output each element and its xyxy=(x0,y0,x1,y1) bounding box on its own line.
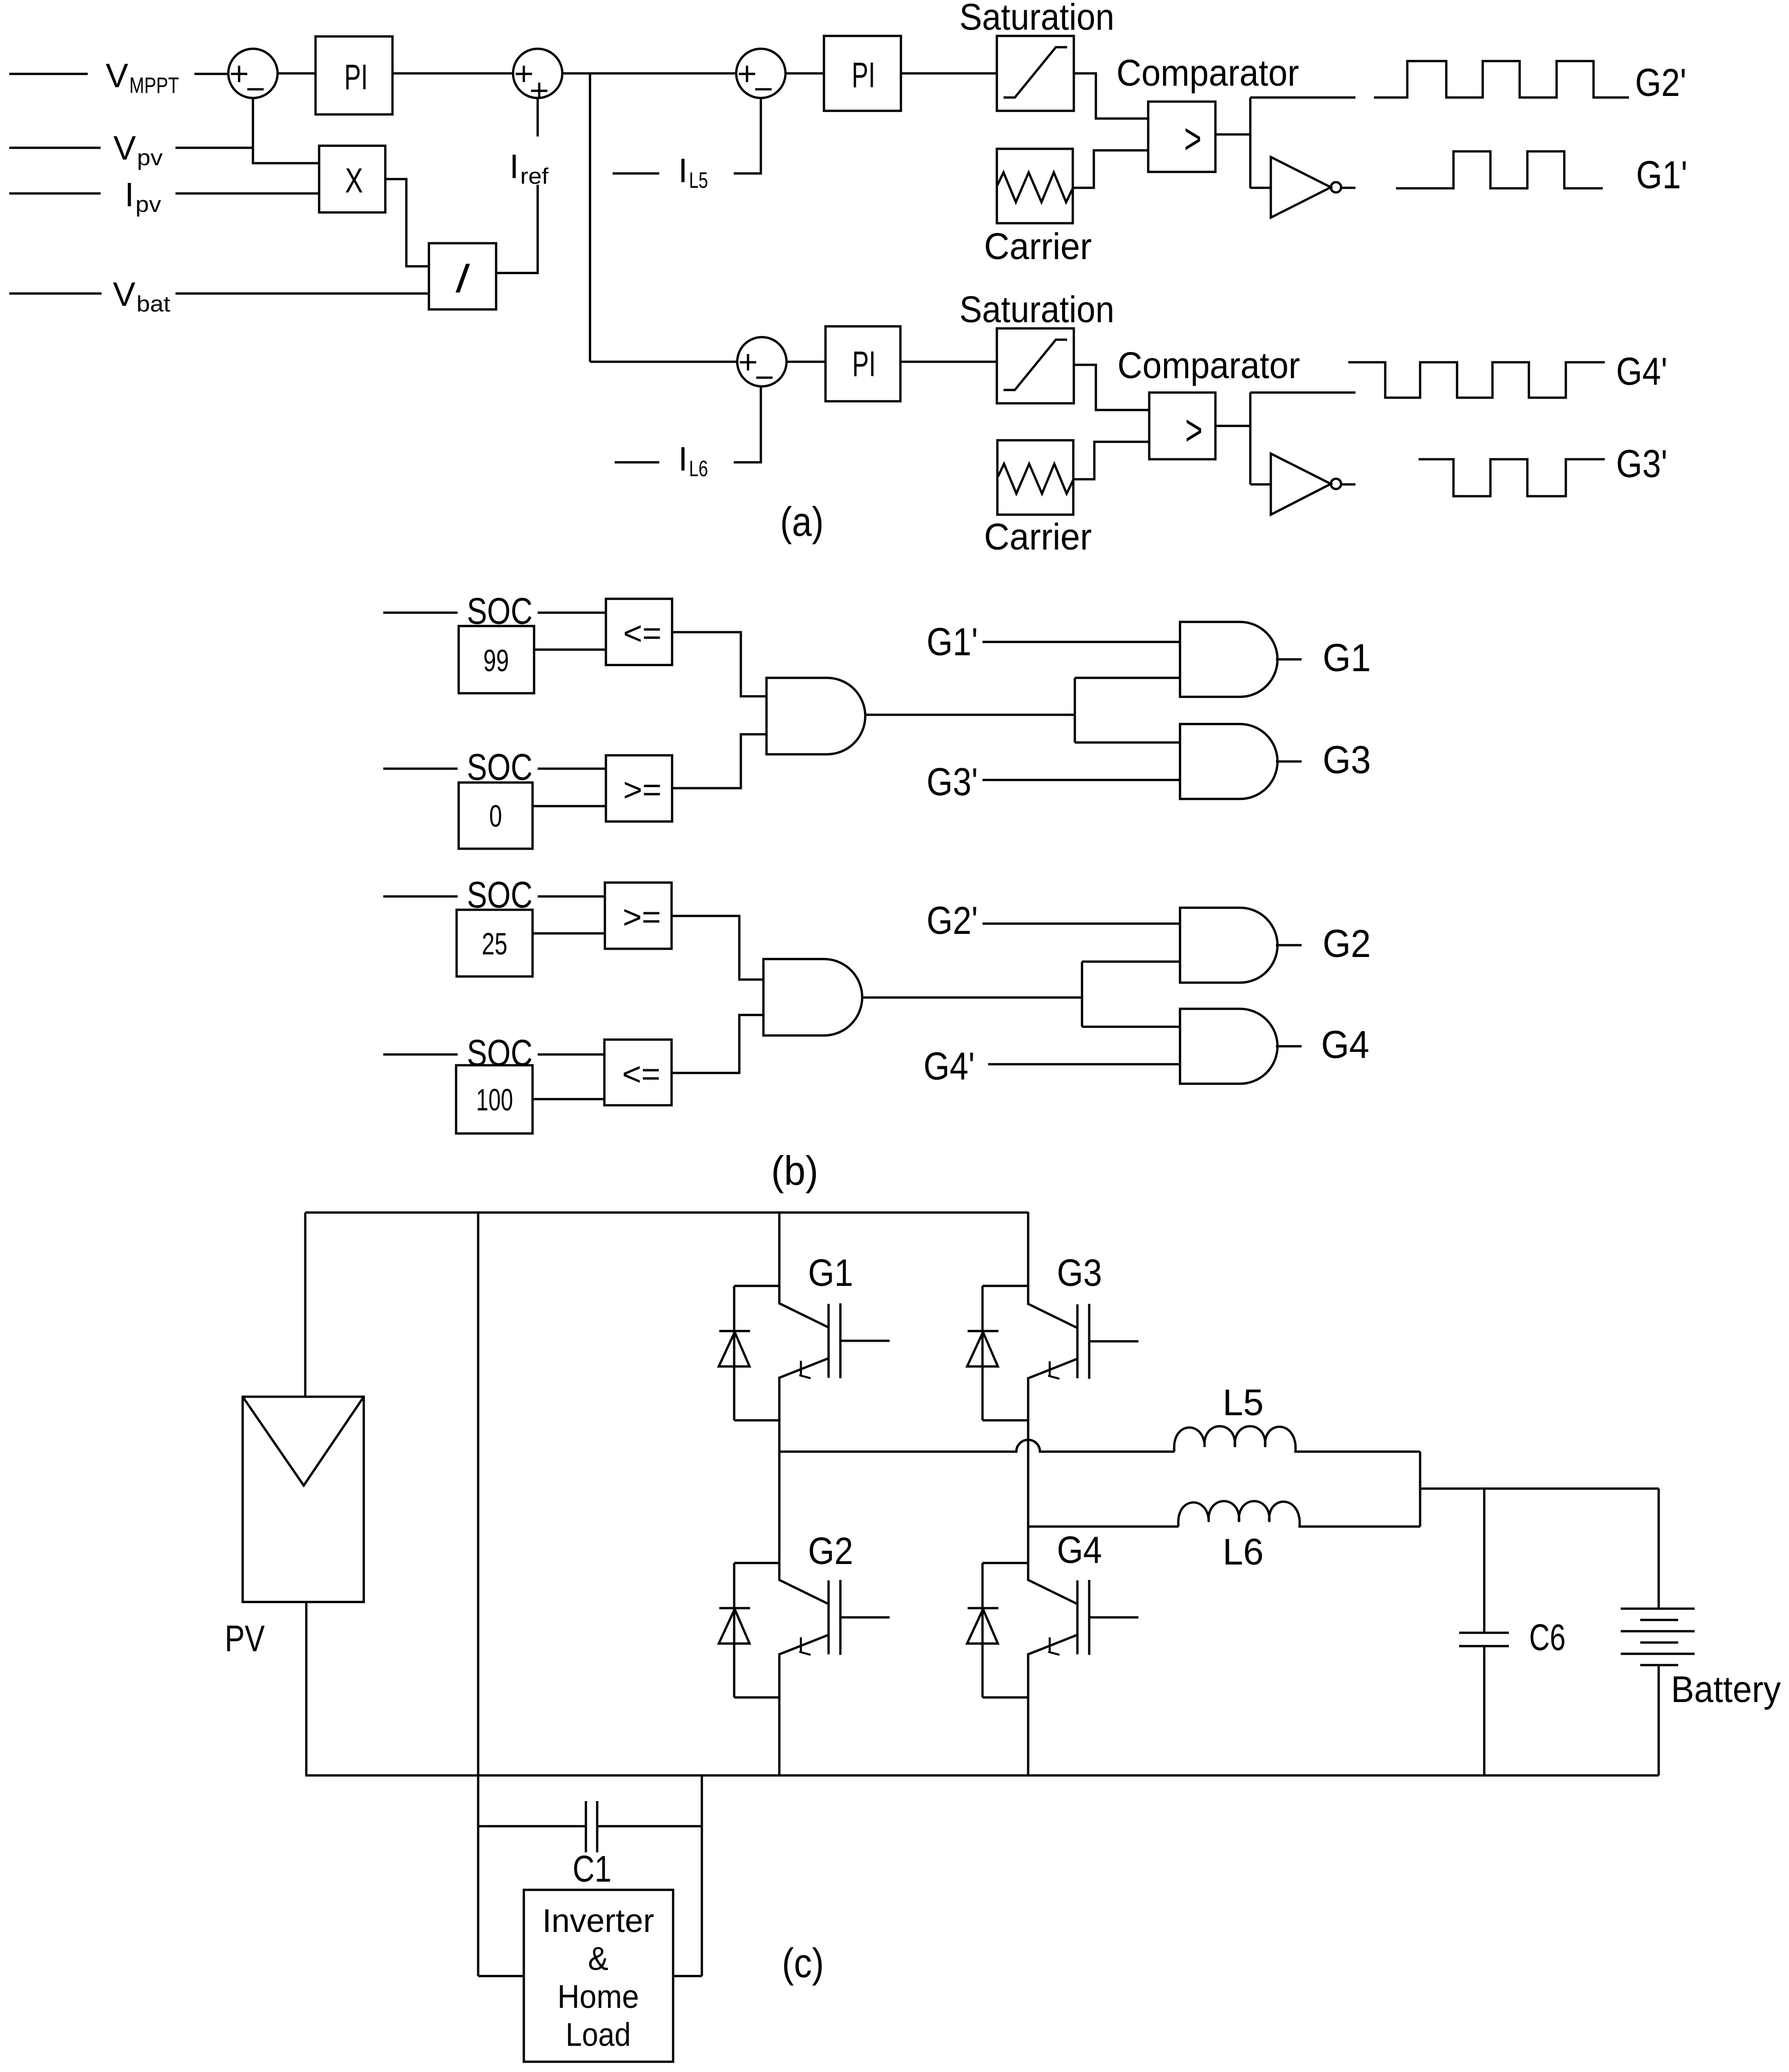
wire I_ref riser to S2 xyxy=(537,99,539,136)
svg-text:G2: G2 xyxy=(1323,922,1371,966)
summing junction S3 xyxy=(736,49,785,98)
wire S1 to PI block xyxy=(278,72,316,75)
wire SOC 1 to LE block xyxy=(538,612,606,614)
transistor Q1 (G1) collector wire xyxy=(778,1212,781,1304)
svg-text:SOC: SOC xyxy=(467,1033,533,1074)
svg-text:Load: Load xyxy=(566,2016,631,2053)
wire phase A to L5 with hop over G3 leg xyxy=(779,1440,1174,1452)
transistor Q3 (G3) gate lead xyxy=(1089,1340,1138,1343)
block Carrier row1 xyxy=(997,149,1073,223)
svg-text:G2': G2' xyxy=(1635,61,1686,105)
wire PV negative vertical xyxy=(305,1602,308,1775)
waveform G3prime xyxy=(1419,459,1605,496)
wire Carrier to Comparator row2 xyxy=(1073,442,1149,479)
wire inductor outputs junction vertical xyxy=(1419,1452,1422,1527)
waveform G4prime xyxy=(1348,362,1605,398)
wire AND G1 output xyxy=(1276,658,1302,661)
comparison block GE 1 xyxy=(606,755,672,822)
AND gate for G3 xyxy=(1180,724,1277,799)
waveform G1prime xyxy=(1396,151,1603,188)
svg-text:/: / xyxy=(456,257,470,301)
svg-text:G2: G2 xyxy=(808,1530,853,1572)
wire C6 branch vertical xyxy=(1483,1489,1486,1634)
wire inverter to G1prime waveform xyxy=(1341,187,1355,189)
wire AND G2 output xyxy=(1276,944,1302,947)
block PI (current loop IL6) xyxy=(825,326,900,401)
svg-text:PI: PI xyxy=(344,57,368,97)
wire PI to Saturation row1 xyxy=(901,72,997,75)
wire C1 right vertical to bottom bus xyxy=(701,1775,703,1976)
wire SOC input 4 stub xyxy=(383,1053,458,1056)
svg-text:C6: C6 xyxy=(1529,1617,1566,1658)
wire V_pv to node under S1 xyxy=(175,147,253,149)
wire I_pv to X block xyxy=(175,192,319,195)
transistor Q2 (G2) collector wire xyxy=(778,1452,781,1581)
wire I_L5 to S3 xyxy=(734,98,761,173)
svg-text:pv: pv xyxy=(135,192,161,217)
wire battery negative lead xyxy=(1658,1665,1660,1775)
summing junction S4 xyxy=(737,337,787,386)
AND gate for G2 xyxy=(1180,908,1277,983)
waveform G2prime xyxy=(1374,61,1629,97)
block Comparator row2 xyxy=(1149,393,1215,459)
svg-text:(a): (a) xyxy=(780,499,824,544)
AND gate A xyxy=(766,678,866,754)
wire DC top bus xyxy=(305,1211,1028,1214)
wire I_pv input stub xyxy=(9,192,101,195)
constant block 100 xyxy=(456,1065,533,1133)
svg-text:<=: <= xyxy=(622,1055,661,1092)
wire G3prime to AND gate G3 xyxy=(982,779,1180,781)
svg-text:Inverter: Inverter xyxy=(542,1902,654,1939)
svg-text:(b): (b) xyxy=(771,1148,818,1194)
wire SOC 2 to GE block xyxy=(538,768,606,770)
svg-text:I: I xyxy=(678,151,687,189)
wire G2prime to AND gate G2 xyxy=(982,923,1180,925)
transistor Q3 (G3) emitter wire xyxy=(1027,1377,1030,1528)
transistor Q4 (G4) gate lead xyxy=(1089,1616,1138,1619)
wire G4prime to AND gate G4 xyxy=(988,1063,1180,1066)
wire DC bottom bus xyxy=(305,1774,1659,1777)
wire I_L6 stub xyxy=(615,461,659,464)
capacitor C1 xyxy=(585,1801,587,1852)
block Saturation row1 xyxy=(997,36,1074,111)
wire V_pv input stub xyxy=(9,147,101,149)
wire S3 to PI row1 xyxy=(785,72,824,75)
block X multiplier xyxy=(319,146,385,212)
wire AND G4 output xyxy=(1276,1045,1302,1048)
svg-text:G1': G1' xyxy=(1636,153,1687,197)
svg-text:L5: L5 xyxy=(1223,1382,1264,1423)
wire V_pv routed to X block xyxy=(253,148,319,163)
svg-text:Home: Home xyxy=(558,1978,639,2015)
transistor Q2 (G2) gate lead xyxy=(840,1616,890,1619)
svg-text:Battery: Battery xyxy=(1671,1669,1781,1710)
svg-text:<=: <= xyxy=(623,615,662,652)
wire branch to S4 xyxy=(590,361,737,363)
AND gate for G4 xyxy=(1180,1009,1277,1084)
wire S4 to PI row2 xyxy=(787,361,825,363)
wire divider output to I_ref riser xyxy=(496,185,538,273)
wire inverter to G3prime waveform xyxy=(1341,483,1355,486)
svg-text:I: I xyxy=(678,440,687,478)
wire SOC 3 to GE block 2 xyxy=(538,895,605,898)
wire V_bat to divider xyxy=(175,292,429,295)
summing junction S1 xyxy=(228,49,278,98)
wire S1 feedback vertical (Vpv to minus input) xyxy=(252,98,254,148)
wire to G2prime waveform xyxy=(1250,96,1355,99)
comparison block LE 2 xyxy=(604,1040,672,1105)
transistor Q4 (G4) emitter wire xyxy=(1027,1653,1030,1775)
battery symbol xyxy=(1621,1609,1695,1665)
svg-text:Carrier: Carrier xyxy=(984,226,1092,267)
block divider / xyxy=(429,243,496,309)
wire to battery positive xyxy=(1420,1488,1659,1490)
block Saturation row2 xyxy=(997,328,1074,403)
wire I_L5 stub xyxy=(613,172,659,175)
svg-text:G3: G3 xyxy=(1323,738,1371,782)
transistor Q3 (G3) IGBT body xyxy=(1028,1304,1089,1379)
wire 0 to GE block xyxy=(533,805,606,808)
svg-text:Saturation: Saturation xyxy=(959,289,1114,330)
wire PI to Saturation row2 xyxy=(900,361,997,363)
block PI (current loop IL5) xyxy=(824,36,901,111)
svg-text:ref: ref xyxy=(520,164,549,189)
AND gate for G1 xyxy=(1180,622,1277,697)
wire SOC input 3 stub xyxy=(383,895,458,898)
wire battery positive lead xyxy=(1658,1489,1660,1609)
antiparallel diode D4 xyxy=(967,1563,1028,1697)
svg-text:G4': G4' xyxy=(1616,350,1667,394)
svg-text:V: V xyxy=(113,275,135,313)
svg-text:bat: bat xyxy=(136,291,170,317)
inductor L5 xyxy=(1174,1426,1420,1452)
wire branch vertical to row 2 xyxy=(589,73,592,362)
wire to G4prime waveform xyxy=(1250,392,1355,394)
wire C6 to bottom bus xyxy=(1483,1646,1486,1775)
wire output branch vertical row1 xyxy=(1249,97,1252,188)
svg-text:PV: PV xyxy=(225,1618,265,1659)
antiparallel diode D2 xyxy=(719,1563,779,1697)
block Comparator row1 xyxy=(1148,102,1215,172)
capacitor C6 xyxy=(1459,1632,1509,1634)
wire inverter right lead xyxy=(673,1975,702,1978)
svg-text:G1': G1' xyxy=(927,620,978,664)
svg-text:L6: L6 xyxy=(689,456,708,481)
svg-text:99: 99 xyxy=(483,643,509,678)
wire phase B to L6 xyxy=(1028,1526,1178,1528)
wire C1 left plate lead xyxy=(478,1825,586,1828)
svg-text:>: > xyxy=(1184,114,1202,163)
wire AND B branch bracket xyxy=(1081,962,1084,1027)
antiparallel diode D1 xyxy=(719,1286,779,1420)
wire 100 to LE block 2 xyxy=(533,1098,604,1101)
wire 99 to LE block xyxy=(534,649,606,651)
wire Saturation to Comparator row1 xyxy=(1074,73,1148,119)
transistor Q3 (G3) collector wire xyxy=(1027,1212,1030,1305)
wire inverter left lead xyxy=(478,1975,524,1978)
comparison block LE 1 xyxy=(606,599,672,665)
wire PV positive vertical xyxy=(304,1213,307,1397)
svg-text:G2': G2' xyxy=(927,899,978,943)
wire LE 2 output to AND B xyxy=(672,1015,763,1073)
wire AND B output xyxy=(862,996,1082,999)
svg-text:PI: PI xyxy=(852,344,876,384)
logic inverter row2 xyxy=(1271,454,1331,515)
svg-text:>=: >= xyxy=(623,898,661,935)
svg-text:G4': G4' xyxy=(923,1045,975,1088)
svg-text:PI: PI xyxy=(852,55,875,95)
svg-text:G3': G3' xyxy=(1616,442,1667,486)
constant block 0 xyxy=(459,783,533,849)
wire S2 to S3 with branch node xyxy=(563,72,736,75)
svg-text:>=: >= xyxy=(623,771,662,808)
wire SOC input 1 stub xyxy=(383,612,458,614)
svg-text:100: 100 xyxy=(476,1083,513,1117)
svg-text:L6: L6 xyxy=(1223,1532,1264,1573)
svg-text:G3: G3 xyxy=(1057,1252,1102,1294)
svg-text:&: & xyxy=(588,1940,608,1977)
transistor Q1 (G1) gate lead xyxy=(840,1340,890,1342)
wire V_MPPT to summing junction S1 xyxy=(194,73,228,75)
svg-text:0: 0 xyxy=(489,799,502,833)
svg-text:Comparator: Comparator xyxy=(1117,345,1300,386)
wire GE 2 output to AND B xyxy=(672,916,763,980)
block Inverter and Home Load xyxy=(524,1890,673,2062)
svg-text:I: I xyxy=(125,175,134,213)
block PI (voltage loop) xyxy=(316,36,392,114)
svg-text:X: X xyxy=(345,161,363,200)
svg-text:C1: C1 xyxy=(573,1849,612,1890)
wire PI to summing junction S2 xyxy=(392,72,513,75)
svg-text:25: 25 xyxy=(482,927,507,961)
wire Comparator row1 output xyxy=(1215,133,1250,136)
AND gate B xyxy=(763,959,862,1035)
logic inverter row1 xyxy=(1271,157,1331,218)
wire GE 1 output to AND A xyxy=(672,734,766,788)
svg-text:G1: G1 xyxy=(1323,636,1371,680)
svg-text:L5: L5 xyxy=(689,168,708,193)
antiparallel diode D3 xyxy=(967,1286,1028,1420)
transistor Q1 (G1) IGBT body xyxy=(779,1303,840,1378)
svg-text:Saturation: Saturation xyxy=(959,0,1114,38)
svg-text:Carrier: Carrier xyxy=(984,517,1092,558)
wire AND A output xyxy=(866,714,1075,716)
wire V_MPPT input stub xyxy=(9,73,88,75)
wire SOC input 2 stub xyxy=(383,768,458,770)
svg-text:MPPT: MPPT xyxy=(129,73,179,98)
transistor Q4 (G4) IGBT body xyxy=(1028,1580,1089,1655)
svg-text:I: I xyxy=(509,147,519,185)
transistor Q2 (G2) emitter wire xyxy=(778,1653,781,1775)
wire G1prime to AND gate G1 xyxy=(982,641,1180,643)
wire V_bat input stub xyxy=(9,292,102,295)
block Carrier row2 xyxy=(997,440,1073,515)
wire SOC 4 to LE block 2 xyxy=(538,1053,604,1056)
svg-text:>: > xyxy=(1185,406,1203,454)
wire output branch vertical row2 xyxy=(1249,393,1252,484)
svg-text:V: V xyxy=(106,56,128,94)
svg-text:G1: G1 xyxy=(808,1252,853,1294)
wire X output to divider xyxy=(385,179,429,266)
summing junction S2 xyxy=(513,49,562,99)
svg-text:pv: pv xyxy=(137,145,163,170)
svg-text:G3': G3' xyxy=(927,760,978,804)
wire to inverter row1 xyxy=(1250,187,1271,189)
wire Saturation to Comparator row2 xyxy=(1074,365,1149,410)
wire Carrier to Comparator row1 xyxy=(1073,150,1148,188)
constant block 99 xyxy=(459,626,534,693)
wire I_L6 to S4 xyxy=(734,386,761,462)
transistor Q2 (G2) IGBT body xyxy=(779,1580,840,1655)
svg-text:V: V xyxy=(113,129,136,167)
inductor L6 xyxy=(1178,1501,1420,1527)
wire 25 to GE block 2 xyxy=(533,932,605,935)
wire AND G3 output xyxy=(1276,760,1302,763)
transistor Q1 (G1) emitter wire xyxy=(778,1377,781,1453)
wire C1 right plate lead xyxy=(597,1825,702,1828)
PV panel symbol xyxy=(243,1397,364,1602)
wire AND A branch bracket xyxy=(1074,678,1076,742)
wire to inverter row2 xyxy=(1250,483,1271,486)
wire LE 1 output to AND A xyxy=(672,632,766,696)
svg-text:(c): (c) xyxy=(782,1940,824,1986)
comparison block GE 2 xyxy=(605,883,672,949)
transistor Q4 (G4) collector wire xyxy=(1027,1527,1030,1581)
constant block 25 xyxy=(457,910,533,976)
svg-text:G4: G4 xyxy=(1057,1529,1102,1571)
wire C1 branch vertical from top bus xyxy=(477,1213,480,1976)
svg-text:Comparator: Comparator xyxy=(1116,53,1299,94)
svg-text:G4: G4 xyxy=(1321,1023,1369,1067)
wire Comparator row2 output xyxy=(1215,425,1250,427)
